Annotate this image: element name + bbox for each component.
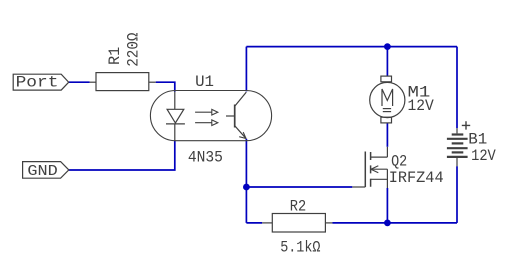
svg-text:5.1kΩ: 5.1kΩ <box>280 239 321 257</box>
wire rail to battery plus <box>456 47 458 129</box>
wire top rail <box>246 46 457 48</box>
wire Port to R1 <box>69 81 90 83</box>
transistor phototransistor of U1 <box>226 92 246 139</box>
wire battery minus to bottom rail <box>456 166 458 223</box>
junction gate branch <box>243 184 250 191</box>
resistor R1 <box>90 73 156 91</box>
transistor Q2 MOSFET <box>352 147 387 188</box>
wire motor bottom to Q2 drain <box>386 123 388 147</box>
light emission arrow 1 <box>195 109 218 115</box>
svg-text:12V: 12V <box>408 97 435 115</box>
wire opto LED cathode to GND <box>69 140 175 170</box>
svg-text:B1: B1 <box>468 130 487 148</box>
light emission arrow 2 <box>195 120 218 126</box>
wire bottom rail left to R2 <box>246 222 262 224</box>
wire rail to motor top <box>386 47 388 77</box>
diode LED inside U1 <box>166 92 185 141</box>
svg-text:R2: R2 <box>290 197 306 215</box>
connector Port <box>13 74 68 90</box>
battery B1 <box>447 128 468 166</box>
wire gate net <box>246 186 352 188</box>
svg-text:R1: R1 <box>106 47 124 65</box>
svg-text:4N35: 4N35 <box>188 148 223 166</box>
wire rail to opto collector <box>245 47 247 92</box>
wire opto emitter down to bottom rail <box>245 139 247 223</box>
svg-text:220Ω: 220Ω <box>125 32 143 67</box>
resistor R2 <box>262 214 332 233</box>
junction rail-motor <box>384 43 391 50</box>
optocoupler U1 body <box>150 91 271 141</box>
connector GND <box>23 162 69 179</box>
svg-text:Port: Port <box>16 74 59 92</box>
motor M1 <box>370 76 405 123</box>
junction source-bottom rail <box>384 220 391 227</box>
svg-text:GND: GND <box>27 163 57 180</box>
wire R2 to bottom rail right <box>333 222 458 224</box>
svg-text:U1: U1 <box>195 73 214 91</box>
svg-text:Q2: Q2 <box>391 153 407 171</box>
wire R1 to opto LED anode <box>156 82 175 91</box>
battery plus sign <box>462 121 470 129</box>
wire Q2 source to bottom rail <box>386 188 388 223</box>
svg-text:12V: 12V <box>471 147 496 165</box>
svg-text:IRFZ44: IRFZ44 <box>389 169 444 187</box>
